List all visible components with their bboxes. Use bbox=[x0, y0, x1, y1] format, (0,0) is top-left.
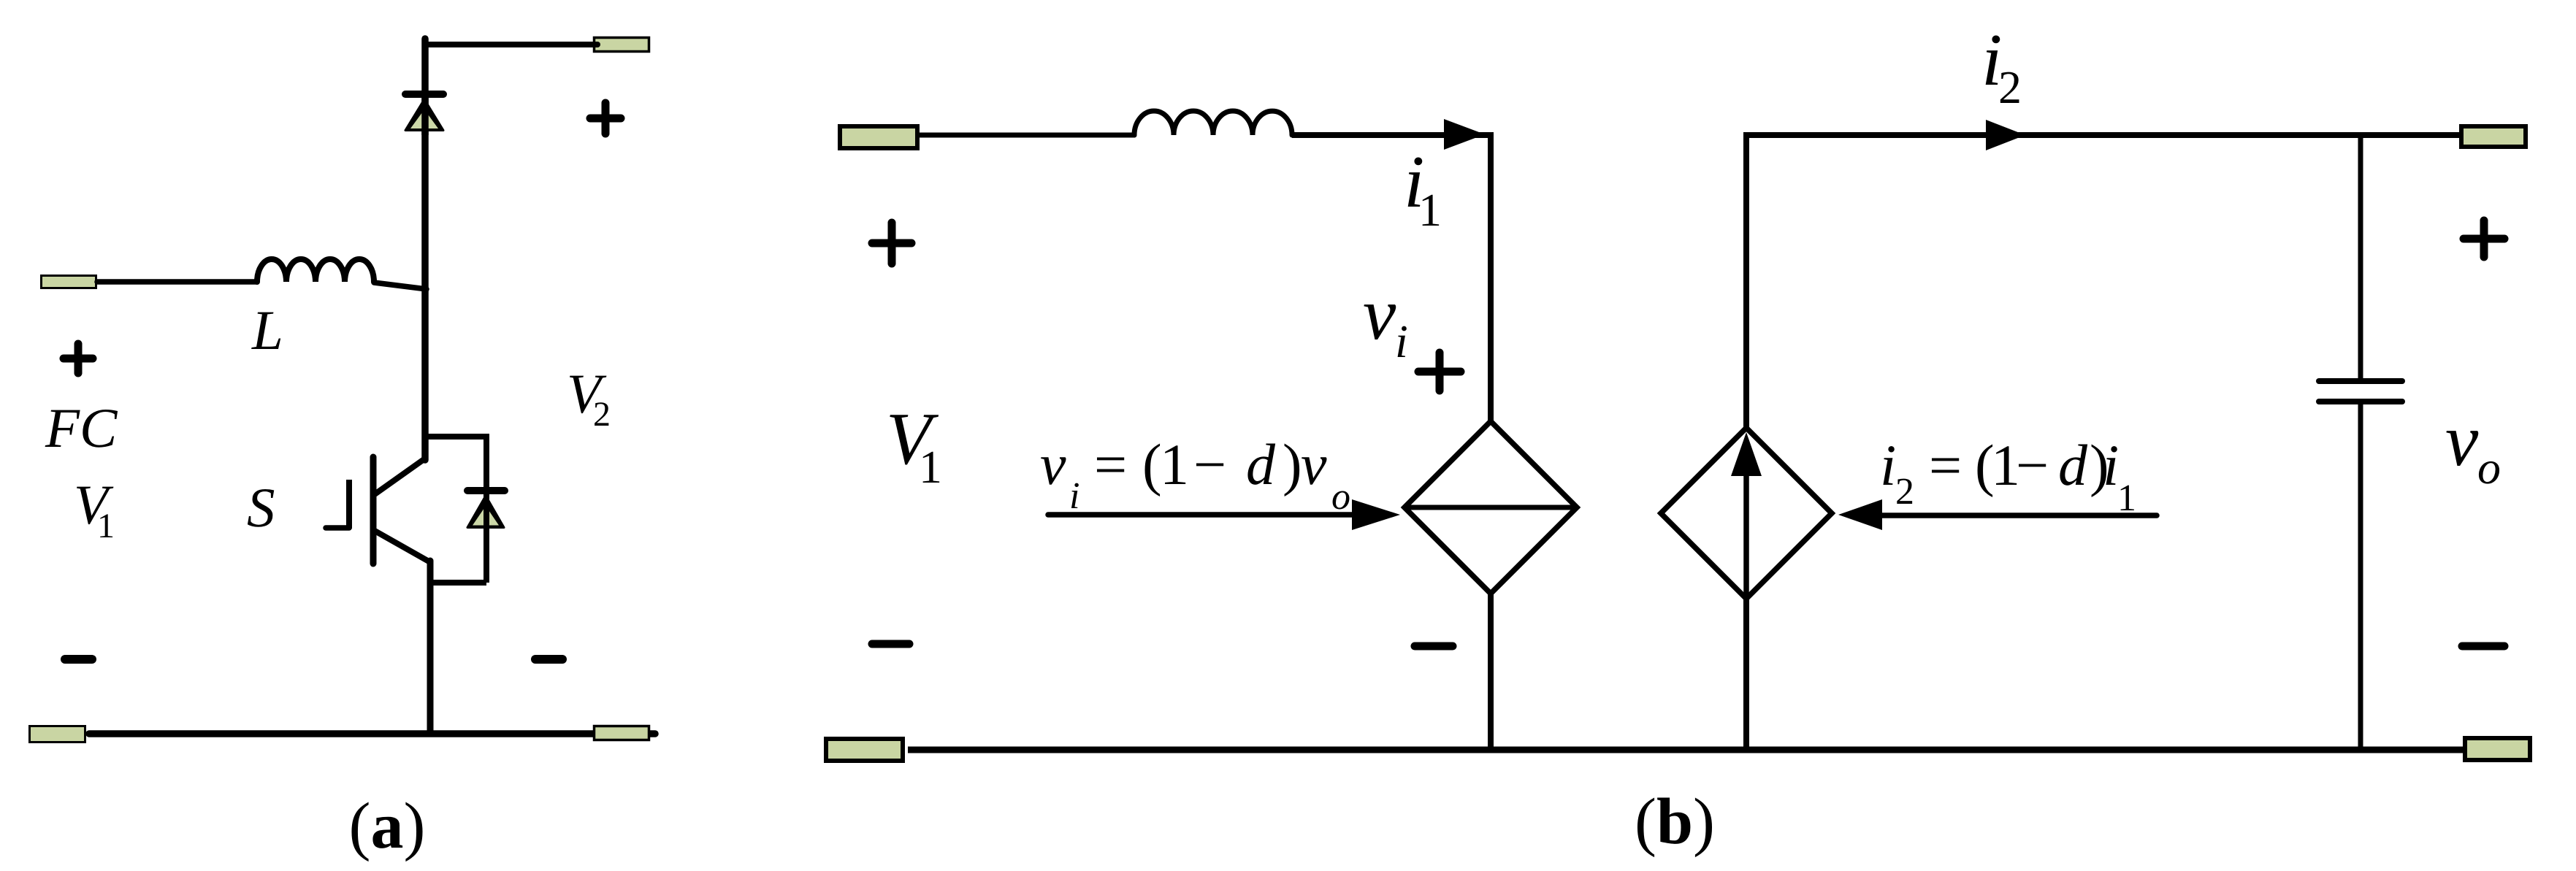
svg-text:): ) bbox=[1283, 433, 1302, 497]
svg-text:i: i bbox=[1069, 475, 1079, 517]
svg-text:(a): (a) bbox=[349, 790, 426, 862]
wire A main vertical branch bbox=[421, 39, 429, 460]
dependent voltage source diamond bbox=[1404, 421, 1577, 594]
label L bbox=[251, 299, 283, 361]
svg-text:=: = bbox=[1929, 434, 1962, 498]
label S bbox=[247, 476, 275, 539]
svg-text:o: o bbox=[2477, 442, 2501, 494]
svg-text:S: S bbox=[247, 476, 275, 539]
arrow vi (pointing right into diamond) bbox=[1048, 499, 1400, 530]
svg-text:=: = bbox=[1094, 433, 1127, 497]
svg-text:1: 1 bbox=[97, 507, 115, 545]
svg-text:(b): (b) bbox=[1635, 786, 1715, 858]
svg-text:−: − bbox=[1193, 433, 1226, 497]
wire A bottom rail bbox=[89, 730, 655, 737]
terminal A-mid-left bbox=[42, 276, 96, 288]
plus sign B vi bbox=[1418, 353, 1461, 391]
svg-text:d: d bbox=[1246, 433, 1276, 497]
minus sign A right bbox=[535, 655, 562, 664]
minus sign B vo bbox=[2462, 642, 2504, 651]
label i2 bbox=[1981, 19, 2022, 113]
diode D1 (boost diode) bbox=[405, 91, 443, 135]
svg-text:1: 1 bbox=[1418, 184, 1442, 236]
label i1 bbox=[1404, 141, 1442, 236]
IGBT S gate lead bbox=[326, 525, 349, 531]
wire A emitter vertical to rail bbox=[427, 561, 434, 734]
terminal B-bottom-right bbox=[2465, 738, 2530, 760]
terminal A-top-right bbox=[595, 38, 649, 52]
dependent current source diamond bbox=[1661, 428, 1832, 599]
terminal A-bottom-left bbox=[30, 726, 85, 743]
wire A diode branch bottom link bbox=[430, 580, 486, 586]
minus sign B vi bbox=[1415, 642, 1453, 651]
svg-text:FC: FC bbox=[45, 396, 118, 459]
plus sign B V1 bbox=[872, 223, 911, 264]
wire B diamond2 top vertical and top-right wire bbox=[1746, 135, 2459, 428]
terminal A-bottom-right bbox=[595, 726, 649, 740]
wire A inductor to node bbox=[374, 283, 427, 289]
wire B diamond2 bottom vertical bbox=[1743, 599, 1749, 750]
IGBT S collector angled lead bbox=[375, 458, 425, 494]
svg-text:v: v bbox=[2445, 399, 2479, 482]
diode D2 (antiparallel) bbox=[467, 488, 505, 530]
formula vi = (1-d)vo bbox=[1040, 433, 1350, 518]
formula i2 = (1-d)i1 bbox=[1880, 434, 2136, 519]
svg-text:1: 1 bbox=[1160, 433, 1189, 497]
label vo bbox=[2445, 399, 2501, 494]
wire B top-left to corner and down to diamond bbox=[1292, 135, 1491, 421]
wire B diamond1 bottom vertical bbox=[1488, 594, 1494, 750]
capacitor C bbox=[2319, 381, 2402, 402]
svg-text:v: v bbox=[1040, 433, 1066, 497]
inductor L bbox=[257, 259, 374, 282]
wire A left (terminal to inductor) bbox=[97, 279, 257, 285]
svg-text:i: i bbox=[1395, 315, 1408, 367]
wire B capacitor branch top bbox=[2358, 135, 2363, 378]
arrowhead i2 bbox=[1986, 120, 2025, 150]
minus sign A left bbox=[65, 655, 92, 664]
svg-text:L: L bbox=[251, 299, 283, 361]
IGBT S body bar bbox=[370, 457, 377, 564]
IGBT S emitter angled lead bbox=[375, 531, 430, 562]
svg-text:2: 2 bbox=[593, 395, 611, 434]
svg-text:o: o bbox=[1331, 476, 1350, 518]
wire B capacitor branch bottom bbox=[2358, 404, 2363, 750]
label V1 (a) bbox=[74, 473, 115, 545]
svg-text:v: v bbox=[1301, 433, 1327, 497]
label FC bbox=[45, 396, 118, 459]
label vi bbox=[1363, 273, 1408, 367]
wire B bottom rail bbox=[908, 747, 2463, 753]
plus sign B vo bbox=[2464, 220, 2504, 257]
caption (b) bbox=[1635, 786, 1715, 858]
minus sign B V1 bbox=[872, 640, 909, 648]
plus sign A left bbox=[64, 344, 93, 373]
wire A right diode branch vertical bbox=[484, 434, 489, 583]
svg-text:(: ( bbox=[1142, 433, 1162, 497]
svg-text:d: d bbox=[2058, 434, 2088, 498]
wire A tee to diode branch bbox=[425, 434, 486, 440]
caption (a) bbox=[349, 790, 426, 862]
svg-text:i: i bbox=[1880, 434, 1896, 498]
svg-text:1: 1 bbox=[919, 441, 942, 493]
svg-text:i: i bbox=[2103, 434, 2119, 498]
wire B top-left (terminal to inductor) bbox=[920, 133, 1134, 138]
terminal B-bottom-left bbox=[826, 739, 903, 761]
arrowhead i1 bbox=[1444, 119, 1485, 150]
terminal B-top-right bbox=[2461, 126, 2526, 147]
label V2 bbox=[567, 362, 611, 434]
inductor (b) bbox=[1134, 111, 1292, 135]
label V1 (b) bbox=[886, 398, 942, 493]
IGBT S gate bar bbox=[346, 480, 352, 529]
svg-text:2: 2 bbox=[1998, 61, 2022, 113]
wire A top (node to terminal) bbox=[425, 42, 597, 47]
terminal B-top-left bbox=[840, 126, 917, 148]
plus sign A right bbox=[590, 103, 621, 134]
svg-text:2: 2 bbox=[1895, 471, 1914, 513]
svg-text:−: − bbox=[2016, 434, 2049, 498]
arrow i2 (pointing left into diamond) bbox=[1838, 499, 2157, 530]
svg-text:v: v bbox=[1363, 273, 1396, 356]
